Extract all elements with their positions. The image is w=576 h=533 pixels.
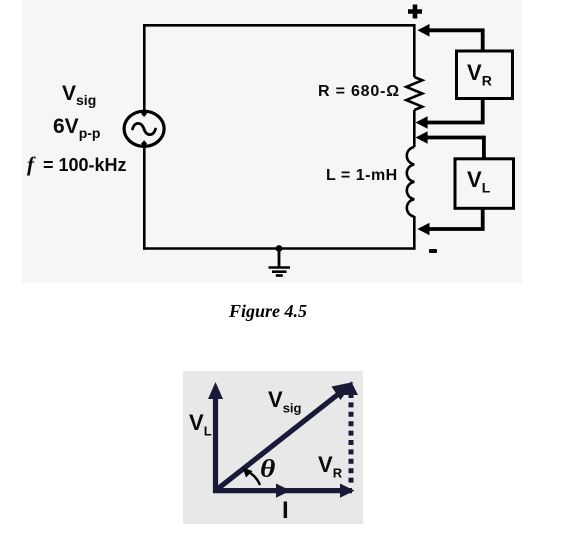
- junction dot at ground node: [276, 245, 283, 252]
- label 6Vp-p: [53, 115, 100, 141]
- phasor diagram panel background: [183, 371, 363, 524]
- wire: left vertical upper (to source): [143, 24, 146, 112]
- phasor diagram SVG (coords: page x-184, y-369): [184, 369, 366, 525]
- VL measurement box: [455, 159, 514, 209]
- circuit schematic SVG (coords: page x-22, y same): [22, 0, 522, 283]
- AC source V_sig circle: [124, 111, 164, 146]
- thick connector: VL bottom to - node, arrowhead left: [426, 208, 483, 229]
- phasor I horizontal arrow: [213, 488, 352, 493]
- phasor label theta: [260, 456, 275, 484]
- wire: bottom horizontal: [143, 247, 414, 250]
- ground symbol: [278, 249, 281, 268]
- phasor label Vsig: [268, 387, 301, 415]
- phasor Vsig diagonal arrow: [216, 392, 342, 491]
- thick connector: VR top to + node, arrowhead left: [426, 30, 483, 51]
- label L = 1-mH: [326, 167, 398, 185]
- resistor R zigzag: [406, 77, 422, 110]
- dotted vertical line VR projection: [349, 393, 354, 487]
- label R = 680-Ω: [318, 83, 400, 101]
- circuit schematic panel background: [22, 0, 522, 283]
- wire: right vertical top (to resistor): [413, 24, 416, 77]
- inductor L coil (4 arcs bulging left): [407, 147, 414, 217]
- sine wave inside source: [133, 123, 156, 134]
- source top junction nub: [141, 110, 147, 117]
- phasor VL vertical arrow: [213, 397, 218, 493]
- label VL (in box): [467, 167, 490, 195]
- phasor label I: [282, 497, 289, 525]
- VR measurement box: [457, 51, 513, 99]
- mid arrowhead on I axis: [276, 484, 291, 498]
- thick connector: VR bottom to mid node, arrowhead left: [424, 98, 483, 122]
- label VR (in box): [467, 60, 492, 88]
- phasor label VR: [318, 452, 342, 480]
- wire: between resistor and inductor: [413, 110, 416, 147]
- label + (top right node): [408, 4, 422, 19]
- caption Figure 4.5: [229, 301, 307, 322]
- wire: inductor to bottom corner: [413, 216, 416, 250]
- label Vsig: [62, 82, 96, 108]
- phasor label VL: [189, 410, 212, 438]
- label f = 100-kHz: [27, 152, 127, 177]
- wire: left vertical lower (source to bottom): [143, 146, 146, 250]
- label - (bottom right node): [429, 249, 437, 253]
- source bottom junction nub: [141, 140, 147, 147]
- wire: top horizontal: [144, 24, 414, 27]
- thick connector: mid node to VL top, arrowhead left: [424, 138, 484, 159]
- theta angle arc with arrowhead: [247, 471, 261, 485]
